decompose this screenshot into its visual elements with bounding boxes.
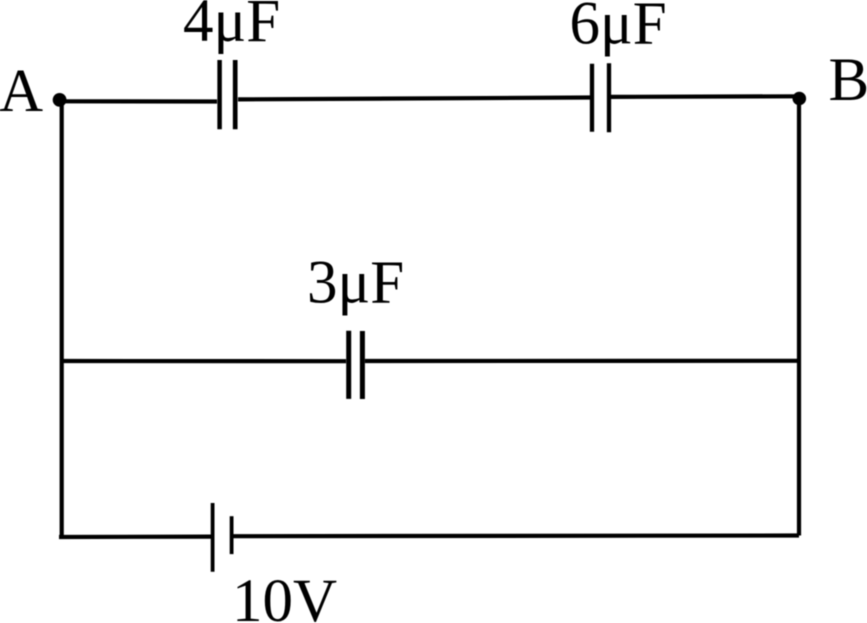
svg-text:B: B xyxy=(829,47,867,114)
svg-text:6μF: 6μF xyxy=(570,0,667,58)
svg-text:10V: 10V xyxy=(232,568,337,623)
svg-text:4μF: 4μF xyxy=(183,0,280,55)
svg-text:A: A xyxy=(0,58,43,125)
svg-text:3μF: 3μF xyxy=(307,250,404,317)
